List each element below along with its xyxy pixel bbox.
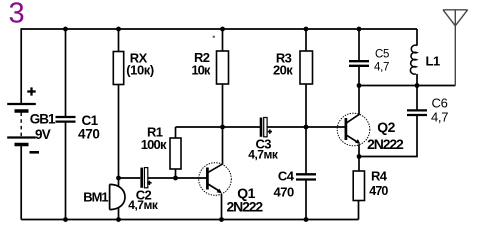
wire top rail (21, 28, 417, 30)
transistor Q1 (199, 163, 232, 220)
svg-text:C5: C5 (375, 49, 389, 61)
wire collector node to C3 (176, 126, 261, 128)
svg-text:20к: 20к (273, 63, 293, 78)
antenna (443, 10, 468, 86)
svg-text:GB1: GB1 (30, 112, 56, 127)
svg-text:4,7: 4,7 (431, 110, 448, 125)
resistor R4 (353, 171, 364, 220)
resistor RX (113, 29, 123, 178)
svg-text:2N222: 2N222 (367, 136, 404, 152)
svg-text:4,7мк: 4,7мк (128, 198, 159, 212)
resistor R1 (170, 127, 181, 178)
svg-text:BM1: BM1 (83, 190, 108, 205)
capacitor C1 (56, 29, 76, 220)
wire bottom rail (21, 219, 358, 221)
transistor Q2 (337, 86, 370, 172)
wire C2 to Q1 base (148, 177, 208, 179)
wire tank node rail (359, 85, 455, 87)
capacitor C3 electrolytic (260, 118, 272, 137)
svg-text:470: 470 (274, 185, 294, 200)
wire C3 to Q2 base (267, 126, 345, 128)
svg-text:R4: R4 (371, 169, 388, 184)
capacitor C5 (349, 29, 369, 86)
wire left battery column (20, 28, 22, 103)
microphone BM1 (110, 178, 125, 220)
svg-text:C6: C6 (432, 96, 448, 111)
svg-text:Q2: Q2 (377, 119, 395, 135)
svg-text:2N222: 2N222 (227, 199, 264, 215)
svg-text:4,7мк: 4,7мк (248, 147, 279, 161)
wire battery to bottom rail (20, 146, 22, 220)
capacitor C2 electrolytic (140, 168, 151, 188)
svg-text:C4: C4 (278, 169, 295, 184)
capacitor C6 (359, 86, 427, 157)
svg-text:10к: 10к (191, 63, 210, 78)
svg-text:9V: 9V (35, 127, 51, 142)
resistor R2 (217, 29, 229, 165)
inductor L1 (410, 29, 417, 86)
wire mic node to C2 (119, 177, 141, 179)
svg-text:4,7: 4,7 (374, 62, 389, 74)
svg-text:100к: 100к (141, 137, 167, 152)
svg-text:470: 470 (369, 184, 388, 198)
capacitor C4 (296, 127, 316, 220)
svg-text:(10к): (10к) (126, 63, 154, 78)
svg-text:3: 3 (9, 0, 25, 30)
svg-text:470: 470 (78, 127, 100, 142)
resistor R3 (300, 29, 313, 127)
stray dot (213, 36, 215, 38)
svg-text:L1: L1 (426, 54, 440, 69)
battery GB1 (7, 87, 39, 152)
